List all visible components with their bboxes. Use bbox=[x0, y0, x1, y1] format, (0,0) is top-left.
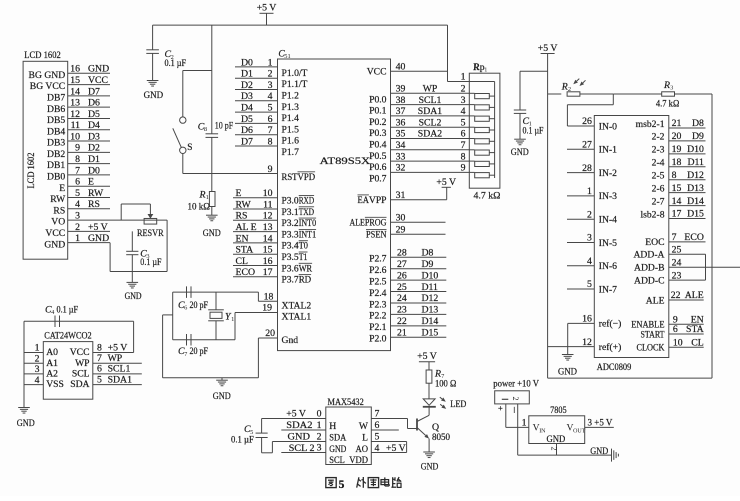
svg-text:51: 51 bbox=[284, 53, 290, 60]
svg-text:2: 2 bbox=[317, 432, 322, 443]
svg-text:P1.5: P1.5 bbox=[282, 124, 300, 135]
svg-text:7: 7 bbox=[268, 125, 273, 136]
svg-text:14: 14 bbox=[672, 196, 682, 207]
svg-text:6: 6 bbox=[461, 129, 466, 140]
svg-text:25: 25 bbox=[397, 282, 407, 293]
svg-text:0: 0 bbox=[317, 409, 322, 420]
svg-text:VCC: VCC bbox=[367, 67, 387, 78]
svg-text:8: 8 bbox=[75, 154, 80, 165]
svg-text:CLOCK: CLOCK bbox=[637, 343, 665, 354]
svg-text:6: 6 bbox=[97, 364, 102, 375]
svg-text:20: 20 bbox=[265, 328, 275, 339]
svg-text:33: 33 bbox=[396, 151, 406, 162]
svg-text:16: 16 bbox=[582, 314, 592, 325]
svg-text:VPP: VPP bbox=[369, 195, 387, 206]
svg-text:P0.1: P0.1 bbox=[369, 106, 387, 117]
svg-text:11: 11 bbox=[71, 120, 81, 131]
svg-text:GND: GND bbox=[421, 462, 439, 473]
svg-text:DB2: DB2 bbox=[47, 149, 65, 160]
svg-text:ALE: ALE bbox=[646, 295, 665, 306]
svg-text:1: 1 bbox=[522, 418, 527, 429]
svg-text:11: 11 bbox=[263, 199, 273, 210]
svg-text:D0: D0 bbox=[88, 165, 100, 176]
svg-text:26: 26 bbox=[582, 116, 592, 127]
svg-text:RW: RW bbox=[88, 188, 104, 199]
svg-text:13: 13 bbox=[263, 222, 273, 233]
svg-text:RST: RST bbox=[282, 172, 298, 183]
svg-text:IN-3: IN-3 bbox=[599, 191, 617, 202]
svg-text:2: 2 bbox=[75, 222, 80, 233]
svg-text:CAT24WCO2: CAT24WCO2 bbox=[44, 331, 92, 342]
svg-text:32: 32 bbox=[396, 163, 406, 174]
svg-text:17: 17 bbox=[263, 267, 273, 278]
svg-text:23: 23 bbox=[397, 305, 407, 316]
svg-text:24: 24 bbox=[672, 257, 682, 268]
svg-text:EA: EA bbox=[358, 195, 369, 206]
svg-text:VCC: VCC bbox=[70, 347, 90, 358]
svg-text:14: 14 bbox=[70, 86, 80, 97]
svg-text:D15: D15 bbox=[422, 327, 439, 338]
svg-text:2: 2 bbox=[587, 209, 592, 220]
svg-text:XTAL2: XTAL2 bbox=[282, 300, 312, 311]
svg-text:D15: D15 bbox=[687, 209, 704, 220]
svg-text:SDA2: SDA2 bbox=[418, 129, 443, 140]
svg-text:SCL1: SCL1 bbox=[108, 364, 131, 375]
svg-text:5: 5 bbox=[587, 279, 592, 290]
svg-text:10: 10 bbox=[263, 188, 273, 199]
svg-text:WR: WR bbox=[299, 263, 313, 274]
svg-text:SDA2: SDA2 bbox=[286, 420, 312, 431]
svg-text:RS: RS bbox=[236, 211, 248, 222]
svg-text:T1: T1 bbox=[299, 252, 308, 263]
svg-text:10 kΩ: 10 kΩ bbox=[188, 202, 211, 213]
svg-text:5: 5 bbox=[97, 374, 102, 385]
svg-text:msb2-1: msb2-1 bbox=[636, 119, 665, 130]
svg-text:GND: GND bbox=[329, 444, 346, 455]
svg-text:D13: D13 bbox=[687, 183, 704, 194]
svg-text:A2: A2 bbox=[46, 369, 58, 380]
svg-text:GND: GND bbox=[590, 446, 608, 457]
svg-text:1: 1 bbox=[484, 66, 487, 73]
svg-text:DB0: DB0 bbox=[47, 172, 65, 183]
svg-text:IN: IN bbox=[539, 428, 546, 434]
svg-text:8: 8 bbox=[461, 151, 466, 162]
svg-text:IN-5: IN-5 bbox=[599, 238, 617, 249]
svg-text:power +10 V: power +10 V bbox=[493, 379, 539, 390]
svg-text:Gnd: Gnd bbox=[282, 335, 299, 346]
svg-text:2: 2 bbox=[461, 84, 466, 95]
svg-text:4.7 kΩ: 4.7 kΩ bbox=[474, 191, 501, 202]
svg-text:E: E bbox=[236, 188, 242, 199]
svg-text:D4: D4 bbox=[88, 120, 100, 131]
svg-text:DB4: DB4 bbox=[47, 126, 65, 137]
svg-text:5: 5 bbox=[375, 432, 380, 443]
svg-text:10: 10 bbox=[673, 337, 683, 348]
svg-text:35: 35 bbox=[396, 129, 406, 140]
svg-text:Rp: Rp bbox=[473, 62, 485, 73]
svg-text:20: 20 bbox=[672, 131, 682, 142]
svg-text:P2.4: P2.4 bbox=[369, 288, 387, 299]
svg-text:LCD 1602: LCD 1602 bbox=[24, 50, 61, 61]
svg-text:D1: D1 bbox=[241, 69, 253, 80]
svg-text:E: E bbox=[59, 183, 65, 194]
svg-text:26: 26 bbox=[397, 270, 407, 281]
svg-text:D12: D12 bbox=[687, 170, 704, 181]
svg-text:+5 V: +5 V bbox=[286, 409, 306, 420]
svg-text:3: 3 bbox=[317, 443, 322, 454]
svg-text:GND: GND bbox=[44, 239, 65, 250]
svg-text:D8: D8 bbox=[692, 118, 704, 129]
svg-text:RS: RS bbox=[53, 205, 65, 216]
svg-text:8: 8 bbox=[268, 136, 273, 147]
svg-text:13: 13 bbox=[70, 98, 80, 109]
svg-text:TXD: TXD bbox=[299, 207, 314, 218]
svg-text:RD: RD bbox=[299, 275, 311, 286]
svg-text:LED: LED bbox=[450, 399, 466, 410]
svg-text:VCC: VCC bbox=[88, 75, 108, 86]
svg-text:P3.4: P3.4 bbox=[282, 241, 299, 252]
svg-text:23: 23 bbox=[672, 270, 682, 281]
svg-text:5: 5 bbox=[339, 479, 345, 491]
svg-text:D0: D0 bbox=[241, 57, 253, 68]
svg-text:D2: D2 bbox=[241, 80, 253, 91]
svg-text:lsb2-8: lsb2-8 bbox=[640, 209, 664, 220]
svg-text:27: 27 bbox=[397, 259, 407, 270]
svg-text:4: 4 bbox=[35, 375, 40, 386]
svg-text:28: 28 bbox=[582, 163, 592, 174]
svg-text:GND: GND bbox=[288, 432, 311, 443]
svg-text:39: 39 bbox=[396, 84, 406, 95]
svg-text:A0: A0 bbox=[46, 347, 58, 358]
svg-text:SDA: SDA bbox=[329, 433, 346, 444]
svg-text:10 pF: 10 pF bbox=[215, 121, 234, 132]
svg-text:DB6: DB6 bbox=[47, 104, 65, 115]
svg-text:2-7: 2-7 bbox=[652, 196, 665, 207]
svg-text:D13: D13 bbox=[422, 305, 439, 316]
svg-text:1: 1 bbox=[75, 233, 80, 244]
svg-text:H: H bbox=[329, 421, 336, 432]
svg-text:P0.0: P0.0 bbox=[369, 94, 387, 105]
svg-text:EOC: EOC bbox=[645, 237, 664, 248]
svg-text:IN-6: IN-6 bbox=[599, 261, 617, 272]
svg-text:12: 12 bbox=[582, 337, 592, 348]
svg-text:D3: D3 bbox=[241, 91, 253, 102]
svg-text:XTAL1: XTAL1 bbox=[282, 312, 312, 323]
svg-text:1: 1 bbox=[268, 57, 273, 68]
svg-text:D11: D11 bbox=[422, 282, 439, 293]
svg-text:RW: RW bbox=[236, 199, 252, 210]
svg-text:SDA: SDA bbox=[70, 379, 89, 390]
svg-text:0.1 µF: 0.1 µF bbox=[231, 434, 254, 445]
svg-text:6: 6 bbox=[184, 304, 187, 311]
svg-text:P3.6: P3.6 bbox=[282, 263, 299, 274]
svg-text:2: 2 bbox=[568, 86, 571, 93]
svg-text:30: 30 bbox=[396, 212, 406, 223]
svg-text:20 pF: 20 pF bbox=[190, 300, 209, 311]
svg-text:GND: GND bbox=[511, 147, 529, 158]
svg-text:P3.7: P3.7 bbox=[282, 275, 299, 286]
svg-text:36: 36 bbox=[396, 117, 406, 128]
svg-text:8: 8 bbox=[204, 126, 207, 133]
svg-text:D6: D6 bbox=[88, 98, 100, 109]
svg-text:WP: WP bbox=[75, 358, 89, 369]
svg-text:4: 4 bbox=[587, 256, 592, 267]
svg-text:9: 9 bbox=[268, 164, 273, 175]
svg-text:38: 38 bbox=[396, 95, 406, 106]
svg-text:19: 19 bbox=[262, 303, 272, 314]
svg-text:0.1 µF: 0.1 µF bbox=[523, 126, 544, 137]
svg-text:VSS: VSS bbox=[46, 379, 64, 390]
svg-text:ALE: ALE bbox=[350, 218, 365, 229]
svg-text:24: 24 bbox=[397, 293, 407, 304]
svg-text:R: R bbox=[199, 189, 206, 200]
svg-text:6: 6 bbox=[673, 324, 678, 335]
svg-text:0.1 µF: 0.1 µF bbox=[165, 58, 187, 69]
svg-text:+5 V: +5 V bbox=[417, 351, 437, 362]
svg-text:RW: RW bbox=[50, 194, 66, 205]
svg-text:D5: D5 bbox=[241, 114, 253, 125]
svg-text:RS: RS bbox=[88, 199, 100, 210]
svg-text:P1.6: P1.6 bbox=[282, 136, 300, 147]
svg-text:4: 4 bbox=[268, 91, 273, 102]
svg-text:RXD: RXD bbox=[299, 196, 314, 207]
svg-text:START: START bbox=[641, 329, 665, 340]
svg-text:D2: D2 bbox=[88, 143, 100, 154]
svg-text:L: L bbox=[362, 433, 368, 444]
svg-text:7805: 7805 bbox=[550, 405, 567, 416]
svg-text:6: 6 bbox=[75, 177, 80, 188]
svg-text:PROG: PROG bbox=[365, 218, 387, 229]
svg-text:D10: D10 bbox=[687, 144, 704, 155]
svg-text:SDA1: SDA1 bbox=[418, 106, 443, 117]
svg-text:4.7 kΩ: 4.7 kΩ bbox=[656, 98, 679, 109]
svg-text:P3.2: P3.2 bbox=[282, 218, 299, 229]
svg-text:1: 1 bbox=[231, 316, 234, 323]
svg-text:21: 21 bbox=[672, 118, 682, 129]
svg-text:DB5: DB5 bbox=[47, 115, 65, 126]
svg-text:2-4: 2-4 bbox=[652, 158, 665, 169]
svg-text:P0.4: P0.4 bbox=[369, 140, 387, 151]
svg-text:IN-1: IN-1 bbox=[599, 145, 617, 156]
svg-text:GND: GND bbox=[213, 391, 231, 402]
svg-text:D11: D11 bbox=[687, 157, 704, 168]
svg-text:R: R bbox=[561, 82, 568, 93]
svg-text:BG GND: BG GND bbox=[29, 70, 66, 81]
svg-text:7: 7 bbox=[375, 408, 380, 419]
svg-text:27: 27 bbox=[582, 140, 592, 151]
svg-text:9: 9 bbox=[75, 143, 80, 154]
svg-text:P0.5: P0.5 bbox=[369, 151, 387, 162]
svg-text:15: 15 bbox=[672, 183, 682, 194]
svg-text:D5: D5 bbox=[88, 109, 100, 120]
svg-text:T0: T0 bbox=[299, 241, 308, 252]
svg-text:VCC: VCC bbox=[45, 228, 65, 239]
svg-text:10: 10 bbox=[70, 131, 80, 142]
svg-text:2-3: 2-3 bbox=[652, 145, 665, 156]
svg-text:INT1: INT1 bbox=[299, 229, 317, 240]
svg-text:5: 5 bbox=[461, 117, 466, 128]
svg-text:7: 7 bbox=[97, 353, 102, 364]
svg-text:4: 4 bbox=[375, 443, 380, 454]
svg-text:DB3: DB3 bbox=[47, 138, 65, 149]
svg-text:7: 7 bbox=[672, 232, 677, 243]
svg-text:IN-7: IN-7 bbox=[599, 284, 617, 295]
svg-text:WP: WP bbox=[108, 353, 123, 364]
svg-text:P3.5: P3.5 bbox=[282, 252, 299, 263]
svg-text:RESVR: RESVR bbox=[137, 228, 164, 239]
svg-text:P2.5: P2.5 bbox=[369, 276, 387, 287]
svg-text:OUT: OUT bbox=[573, 428, 586, 434]
svg-text:GND: GND bbox=[17, 418, 35, 429]
svg-text:P1.4: P1.4 bbox=[282, 113, 300, 124]
svg-text:8: 8 bbox=[97, 342, 102, 353]
svg-text:15: 15 bbox=[263, 245, 273, 256]
svg-text:S: S bbox=[187, 143, 192, 153]
svg-text:CL: CL bbox=[691, 337, 704, 348]
svg-text:GND: GND bbox=[558, 367, 577, 378]
svg-text:ref(+): ref(+) bbox=[599, 342, 622, 353]
svg-text:D14: D14 bbox=[687, 196, 704, 207]
svg-text:5: 5 bbox=[75, 188, 80, 199]
svg-text:14: 14 bbox=[263, 233, 273, 244]
svg-text:D7: D7 bbox=[241, 136, 253, 147]
svg-text:34: 34 bbox=[396, 140, 406, 151]
svg-text:A1: A1 bbox=[46, 358, 58, 369]
svg-text:VDD: VDD bbox=[349, 455, 368, 466]
svg-text:VO: VO bbox=[51, 217, 65, 228]
svg-text:8: 8 bbox=[672, 170, 677, 181]
svg-text:D4: D4 bbox=[241, 103, 253, 114]
svg-text:6: 6 bbox=[268, 114, 273, 125]
svg-text:5: 5 bbox=[268, 103, 273, 114]
svg-text:2-2: 2-2 bbox=[652, 132, 665, 143]
svg-text:D9: D9 bbox=[422, 259, 434, 270]
svg-text:+5 V: +5 V bbox=[257, 3, 277, 14]
svg-text:12: 12 bbox=[70, 109, 80, 120]
svg-text:P3.0: P3.0 bbox=[282, 196, 299, 207]
svg-text:P1.2: P1.2 bbox=[282, 91, 300, 102]
svg-text:PSEN: PSEN bbox=[366, 230, 387, 241]
svg-text:P3.3: P3.3 bbox=[282, 229, 299, 240]
svg-text:IN-0: IN-0 bbox=[599, 121, 617, 132]
svg-text:+5 V: +5 V bbox=[436, 177, 456, 188]
svg-text:3: 3 bbox=[461, 95, 466, 106]
svg-text:16: 16 bbox=[70, 64, 80, 75]
svg-text:3 +5 V: 3 +5 V bbox=[588, 417, 613, 428]
svg-text:P0.2: P0.2 bbox=[369, 117, 387, 128]
svg-text:4: 4 bbox=[75, 199, 80, 210]
svg-text:22: 22 bbox=[671, 290, 681, 301]
svg-text:28: 28 bbox=[397, 248, 407, 259]
svg-text:+5 V: +5 V bbox=[88, 222, 108, 233]
svg-text:SCL1: SCL1 bbox=[419, 95, 442, 106]
svg-text:D3: D3 bbox=[88, 131, 100, 142]
svg-text:ECO: ECO bbox=[684, 232, 704, 243]
svg-text:18: 18 bbox=[264, 292, 274, 303]
svg-text:ADD-A: ADD-A bbox=[633, 250, 664, 261]
svg-text:P2.6: P2.6 bbox=[369, 265, 387, 276]
svg-text:SCL: SCL bbox=[72, 369, 90, 380]
svg-text:P3.1: P3.1 bbox=[282, 207, 299, 218]
svg-text:ADC0809: ADC0809 bbox=[597, 362, 632, 373]
svg-text:19: 19 bbox=[672, 144, 682, 155]
svg-text:18: 18 bbox=[672, 157, 682, 168]
svg-text:12: 12 bbox=[263, 211, 273, 222]
svg-text:P1.1/T: P1.1/T bbox=[282, 79, 308, 90]
svg-text:2: 2 bbox=[268, 69, 273, 80]
svg-text:D10: D10 bbox=[422, 270, 439, 281]
svg-text:+: + bbox=[498, 403, 503, 413]
svg-text:STA: STA bbox=[236, 245, 254, 256]
svg-text:ref(−): ref(−) bbox=[599, 319, 622, 330]
svg-text:ECO: ECO bbox=[236, 267, 256, 278]
svg-text:+5 V: +5 V bbox=[538, 43, 558, 54]
svg-text:2-5: 2-5 bbox=[652, 171, 665, 182]
svg-text:INT0: INT0 bbox=[299, 218, 317, 229]
svg-text:P2.2: P2.2 bbox=[369, 311, 387, 322]
svg-text:+5 V: +5 V bbox=[108, 342, 128, 353]
svg-text:4: 4 bbox=[461, 106, 466, 117]
svg-text:EN: EN bbox=[236, 233, 249, 244]
svg-text:P2.1: P2.1 bbox=[369, 322, 387, 333]
svg-text:25: 25 bbox=[672, 245, 682, 256]
svg-text:GND: GND bbox=[88, 233, 109, 244]
svg-text:0.1 µF: 0.1 µF bbox=[140, 257, 162, 268]
svg-text:BG VCC: BG VCC bbox=[30, 81, 65, 92]
svg-text:MAX5432: MAX5432 bbox=[328, 397, 364, 408]
svg-text:AO: AO bbox=[356, 444, 369, 455]
svg-text:CL: CL bbox=[236, 256, 249, 267]
svg-text:P1.0/T: P1.0/T bbox=[282, 68, 308, 79]
svg-text:SCL: SCL bbox=[329, 455, 345, 466]
svg-text:1: 1 bbox=[35, 343, 40, 354]
svg-text:1: 1 bbox=[587, 186, 592, 197]
svg-text:SCL2: SCL2 bbox=[419, 117, 442, 128]
svg-text:1: 1 bbox=[206, 194, 209, 201]
svg-text:ADD-C: ADD-C bbox=[634, 275, 664, 286]
svg-text:2: 2 bbox=[550, 447, 559, 451]
svg-text:AT89S5X: AT89S5X bbox=[320, 156, 371, 167]
svg-text:P2.7: P2.7 bbox=[369, 254, 387, 265]
svg-text:P1.7: P1.7 bbox=[282, 147, 300, 158]
svg-text:40: 40 bbox=[396, 61, 406, 72]
svg-text:29: 29 bbox=[396, 225, 406, 236]
svg-text:1: 1 bbox=[317, 420, 322, 431]
svg-text:31: 31 bbox=[396, 190, 406, 201]
svg-text:P1.3: P1.3 bbox=[282, 102, 300, 113]
svg-text:SDA1: SDA1 bbox=[108, 374, 133, 385]
svg-text:DB1: DB1 bbox=[47, 160, 65, 171]
svg-text:DB7: DB7 bbox=[47, 92, 65, 103]
svg-text:IN-2: IN-2 bbox=[599, 168, 617, 179]
svg-text:D6: D6 bbox=[241, 125, 253, 136]
svg-text:P0.7: P0.7 bbox=[369, 173, 387, 184]
svg-text:GND: GND bbox=[547, 434, 566, 445]
svg-text:D14: D14 bbox=[422, 316, 439, 327]
svg-text:3: 3 bbox=[670, 85, 673, 92]
svg-text:2: 2 bbox=[35, 353, 40, 364]
svg-text:D12: D12 bbox=[422, 293, 439, 304]
svg-text:D7: D7 bbox=[88, 86, 100, 97]
svg-text:AL E: AL E bbox=[236, 222, 257, 233]
svg-text:ALE: ALE bbox=[685, 290, 704, 301]
svg-text:0.1 µF: 0.1 µF bbox=[57, 304, 79, 315]
svg-text:D8: D8 bbox=[422, 248, 434, 259]
svg-text:P0.3: P0.3 bbox=[369, 128, 387, 139]
svg-text:IN-4: IN-4 bbox=[599, 215, 617, 226]
svg-text:LCD 1602: LCD 1602 bbox=[26, 152, 37, 188]
svg-text:3: 3 bbox=[587, 233, 592, 244]
